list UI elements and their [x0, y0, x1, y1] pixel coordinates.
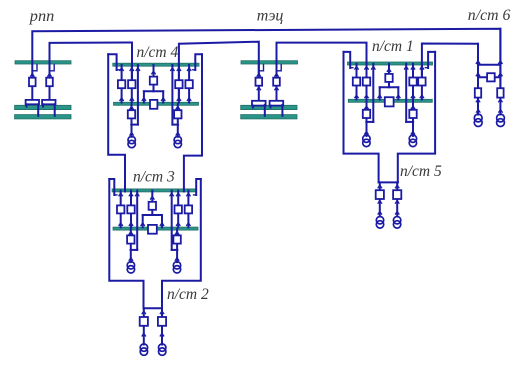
tick pst5 feederL lower	[378, 211, 382, 214]
wire pst6 lower link	[478, 76, 500, 78]
svg-text:п/ст 1: п/ст 1	[372, 38, 414, 55]
bus tec top	[241, 61, 298, 64]
tick pst4 xbayR	[176, 106, 180, 109]
bus pst3 upper	[112, 189, 196, 192]
wire pst4 xfmr bay left	[131, 104, 133, 137]
wire pst4 left wall bus drop	[108, 54, 116, 70]
junction pst3 mergeR	[176, 249, 179, 252]
wire line pst4 to tec	[179, 42, 259, 100]
wire rpp feeder 1 loop	[32, 65, 37, 71]
wire pst3 xfmr bay right	[176, 229, 178, 262]
wire pst1 bay 1	[356, 64, 358, 100]
wire rpp feeder 1	[31, 64, 33, 101]
tick tec feeder1 upper	[257, 74, 261, 77]
breaker pst1 bridge upper	[385, 74, 392, 82]
tick pst4 bypassR	[170, 68, 174, 71]
tick pst4 bay1 upper	[120, 68, 124, 71]
svg-text:п/ст 3: п/ст 3	[133, 168, 175, 185]
tick rpp feeder2 upper	[47, 74, 51, 77]
breaker pst4 bus tie	[150, 100, 157, 109]
svg-text:п/ст 4: п/ст 4	[137, 44, 179, 61]
transformer pst1 TR	[409, 135, 416, 147]
transformer pst2 TL	[140, 344, 147, 355]
tick pst3 bypassR	[170, 193, 174, 196]
breaker tec Q2	[273, 78, 280, 86]
bus rpp lower B	[15, 115, 71, 119]
wire pst1 bridge	[380, 64, 399, 100]
tick pst4 bay2 lower	[130, 98, 134, 101]
wire pst3 left wall bus drop	[109, 179, 114, 195]
transformer tec T2	[270, 101, 284, 116]
breaker pst6 QL	[475, 88, 481, 97]
transformer pst2 TR	[159, 344, 166, 355]
breaker pst3 bus tie	[148, 225, 157, 234]
breaker pst1 Q4	[418, 78, 425, 86]
breaker pst5 QL	[376, 190, 384, 199]
wire pst4 bridge	[144, 65, 163, 103]
breaker pst1 bus tie	[385, 97, 394, 106]
wire tec feeder 1	[258, 64, 260, 101]
tick pst1 bridgeL	[378, 95, 382, 98]
tick pst1 bay1 upper	[354, 66, 358, 69]
wire line pst1 to pst6	[422, 44, 478, 91]
wire pst3 xfmr merge left	[131, 249, 137, 251]
breaker pst2 QR	[158, 317, 166, 326]
tick pst1 xbayL	[364, 106, 368, 109]
breaker tec Q1	[256, 78, 263, 86]
tick pst3 xfmrR	[175, 258, 179, 261]
tick pst3 bypassL	[135, 193, 139, 196]
tick pst3 bridgeL	[141, 223, 145, 226]
hook pst4 left wall drop	[117, 69, 120, 71]
wire pst4 bypass left	[137, 65, 139, 125]
tick pst3 xbayL	[129, 232, 133, 235]
junction pst1 mergeL	[365, 121, 368, 124]
wire line rpp to pst4	[50, 43, 133, 83]
hook pst1 right wall drop	[425, 67, 428, 69]
wire pst4 bypass right	[171, 65, 173, 125]
tick pst1 bay3 lower	[411, 95, 415, 98]
wire pst4 xfmr merge left	[132, 124, 138, 126]
wire pst6 upper link	[478, 64, 500, 66]
wire pst1 bay 3	[412, 64, 414, 100]
tick pst5 feederL mid	[378, 201, 382, 204]
breaker pst4 xfmr right	[174, 110, 181, 118]
tick pst2 feederR upper	[160, 311, 164, 314]
transformer pst6 TL	[474, 114, 482, 126]
tick pst3 bay2 lower	[129, 223, 133, 226]
breaker pst1 xfmr left	[363, 110, 370, 118]
tick pst1 bay3 upper	[411, 66, 415, 69]
hook pst4 right wall drop	[193, 69, 196, 71]
wire pst5 link	[379, 181, 398, 183]
tick pst6 right upper	[498, 61, 502, 64]
wire rpp feeder 2 loop	[50, 65, 55, 71]
bus rpp lower A	[15, 105, 71, 109]
tick pst4 xbayL	[129, 106, 133, 109]
breaker pst3 Q4	[185, 205, 192, 213]
tick pst3 bay3 lower	[176, 223, 180, 226]
breaker pst4 Q1	[118, 80, 125, 88]
tick pst1 bay2 upper	[364, 66, 368, 69]
breaker pst5 QR	[393, 190, 401, 199]
wire pst3 xfmr bay left	[130, 229, 132, 262]
wire pst1 bypass right	[405, 64, 407, 122]
wire pst4 bay 1	[121, 65, 123, 103]
wire pst3 bay 1	[120, 191, 122, 228]
tick pst3 bay4 lower	[186, 223, 190, 226]
breaker pst3 xfmr left	[127, 235, 134, 243]
breaker pst1 xfmr right	[409, 110, 416, 118]
wire pst6 left drop	[477, 44, 479, 115]
breaker rpp Q1	[29, 78, 36, 87]
tick pst1 bridgeR	[396, 95, 400, 98]
transformer pst6 TR	[497, 114, 505, 126]
tick pst3 bay1 lower	[119, 223, 123, 226]
tick pst6 right mid	[498, 73, 502, 76]
tick pst5 feederL upper	[378, 185, 382, 188]
wire pst4 xfmr bay right	[177, 104, 179, 137]
wire pst3 bypass left	[136, 191, 138, 250]
tick pst1 xfmrR	[411, 131, 415, 134]
junction pst4 mergeL	[130, 123, 133, 126]
wire tec feeder 2 loop	[277, 65, 282, 71]
breaker pst1 Q3	[409, 78, 416, 86]
wire pst1 xfmr bay left	[366, 101, 368, 136]
breaker pst2 QL	[140, 317, 148, 326]
wire pst3 bridge	[143, 191, 162, 228]
tick pst4 bridge stub	[151, 71, 155, 74]
tick pst1 bay2 lower	[364, 95, 368, 98]
svg-text:тэц: тэц	[257, 8, 284, 25]
transformer tec T1	[252, 101, 266, 116]
breaker pst4 Q4	[185, 80, 192, 88]
wire pst1 left wall	[344, 52, 379, 183]
tick pst1 bay1 lower	[354, 95, 358, 98]
wire main tie rpp to pst6	[32, 29, 500, 90]
wire pst3 right wall bus drop	[196, 179, 201, 195]
breaker pst4 bridge upper	[150, 77, 157, 85]
wire rpp feeder 2	[49, 64, 51, 101]
tick pst4 xfmrL	[130, 132, 134, 135]
tick pst1 bypassL	[371, 66, 375, 69]
hook pst3 left wall drop	[114, 194, 117, 196]
tick pst6 left upper	[476, 61, 480, 64]
wire pst1 bay 2	[366, 64, 368, 100]
breaker rpp Q2	[46, 78, 53, 87]
tick pst6 xfmrL	[476, 110, 480, 113]
tick pst1 bay4 upper	[420, 66, 424, 69]
transformer rpp T2	[42, 100, 55, 116]
breaker pst6 bridge	[487, 73, 495, 81]
tick tec feeder2 lower	[274, 87, 278, 90]
wire pst3 right wall	[162, 179, 201, 308]
tick pst2 feederR lower	[160, 333, 164, 336]
tick tec feeder2 upper	[274, 74, 278, 77]
svg-text:п/ст 5: п/ст 5	[400, 163, 442, 180]
tick pst1 bay4 lower	[420, 95, 424, 98]
junction pst3 mergeL	[130, 249, 133, 252]
tick pst3 xbayR	[175, 232, 179, 235]
breaker pst6 QR	[497, 88, 503, 97]
tick pst4 bay3 upper	[177, 68, 181, 71]
wire pst2 feeder left	[143, 308, 145, 344]
junction pst1 mergeR	[412, 121, 415, 124]
wire pst4 right wall bus drop	[195, 54, 202, 70]
wire pst1 left wall bus drop	[344, 52, 351, 68]
wire pst4 left wall	[108, 54, 125, 191]
tick pst2 feederL lower	[142, 333, 146, 336]
svg-text:п/ст 2: п/ст 2	[167, 286, 209, 303]
bus rpp top	[15, 61, 71, 64]
breaker pst3 Q1	[117, 205, 124, 213]
breaker pst3 bridge upper	[149, 202, 156, 210]
tick pst6 right lower	[498, 99, 502, 102]
wire pst1 xfmr merge right	[406, 121, 413, 123]
tick pst3 bridge stub	[150, 196, 154, 199]
hook pst3 right wall drop	[193, 194, 196, 196]
tick pst4 bypassL	[136, 68, 140, 71]
tick pst3 xfmrL	[129, 258, 133, 261]
wire pst3 bay 2	[130, 191, 132, 228]
tick pst4 bay4 lower	[187, 98, 191, 101]
wire pst6 right drop	[499, 29, 501, 115]
tick pst5 feederR mid	[395, 201, 399, 204]
wire pst3 bay 4	[187, 191, 189, 228]
transformer rpp T1	[26, 100, 39, 116]
tick pst3 bay1 upper	[119, 193, 123, 196]
wire pst2 feeder right	[161, 308, 163, 344]
wire pst4 bay 4	[188, 65, 190, 103]
tick pst4 bay3 lower	[177, 98, 181, 101]
tick pst3 bridgeR	[160, 223, 164, 226]
wire tec feeder 2	[276, 64, 278, 101]
breaker pst1 Q2	[363, 78, 370, 86]
bus pst4 lower	[114, 102, 199, 105]
tick rpp feeder1 upper	[30, 74, 34, 77]
tick pst3 bay4 upper	[186, 193, 190, 196]
hook pst1 left wall drop	[350, 67, 353, 69]
wire pst3 xfmr merge right	[172, 249, 177, 251]
tick pst1 xbayR	[411, 106, 415, 109]
tick pst6 xfmrR	[498, 110, 502, 113]
wire tec feeder 1 loop	[259, 65, 264, 71]
wire pst3 bypass right	[171, 191, 173, 250]
breaker pst4 Q2	[128, 80, 135, 88]
wire pst4 right wall	[184, 54, 202, 191]
transformer pst4 TR	[174, 136, 181, 147]
bus pst3 lower	[113, 227, 198, 230]
wire pst1 xfmr merge left	[367, 121, 374, 123]
wire pst3 bay 3	[177, 191, 179, 228]
tick pst1 bridge stub	[387, 69, 391, 72]
wire pst1 bay 4	[421, 64, 423, 100]
bus tec lower B	[241, 115, 297, 119]
tick pst4 bridgeL	[142, 98, 146, 101]
transformer pst5 TR	[393, 217, 400, 229]
tick pst4 bay4 upper	[187, 68, 191, 71]
wire pst4 bay 2	[131, 65, 133, 103]
tick pst5 feederR lower	[395, 211, 399, 214]
wire pst4 bay 3	[178, 65, 180, 103]
breaker pst1 Q1	[353, 78, 360, 86]
junction pst4 mergeR	[177, 123, 180, 126]
transformer pst5 TL	[376, 217, 383, 229]
breaker pst4 Q3	[175, 80, 182, 88]
bus pst4 upper	[113, 63, 199, 66]
tick pst4 bay1 lower	[120, 98, 124, 101]
transformer pst3 TR	[173, 262, 180, 273]
tick pst3 bay2 upper	[129, 193, 133, 196]
transformer pst1 TL	[363, 135, 370, 147]
tick tec feeder1 lower	[257, 87, 261, 90]
wire pst5 feeder right	[396, 182, 398, 216]
bus pst1 lower	[348, 99, 432, 102]
wire pst1 bypass left	[372, 64, 374, 122]
breaker pst3 xfmr right	[173, 235, 180, 243]
wire pst1 xfmr bay right	[412, 101, 414, 136]
tick pst1 xfmrL	[364, 131, 368, 134]
tick pst5 feederR upper	[395, 185, 399, 188]
wire pst3 left wall	[109, 179, 143, 308]
tick pst4 xfmrR	[176, 132, 180, 135]
tick pst1 bypassR	[404, 66, 408, 69]
breaker pst3 Q3	[175, 205, 182, 213]
tick pst4 bridgeR	[161, 98, 165, 101]
tick pst6 left mid	[476, 73, 480, 76]
breaker pst4 xfmr left	[128, 110, 135, 118]
tick pst2 feederL upper	[142, 311, 146, 314]
svg-text:рпп: рпп	[29, 6, 54, 25]
wire pst4 xfmr merge right	[172, 124, 177, 126]
tick pst4 bay2 upper	[130, 68, 134, 71]
wire pst1 right wall bus drop	[428, 52, 435, 68]
transformer pst3 TL	[127, 262, 134, 273]
breaker pst3 Q2	[127, 205, 134, 213]
wire pst1 right wall	[398, 52, 435, 183]
wire line tec to pst1	[277, 43, 367, 80]
transformer pst4 TL	[128, 136, 135, 147]
svg-text:п/ст 6: п/ст 6	[468, 7, 511, 24]
wire pst2 link	[144, 307, 163, 309]
bus pst1 upper	[348, 62, 433, 65]
tick pst3 bay3 upper	[176, 193, 180, 196]
bus tec lower A	[241, 105, 297, 109]
tick pst6 left lower	[476, 99, 480, 102]
wire pst5 feeder left	[379, 182, 381, 216]
